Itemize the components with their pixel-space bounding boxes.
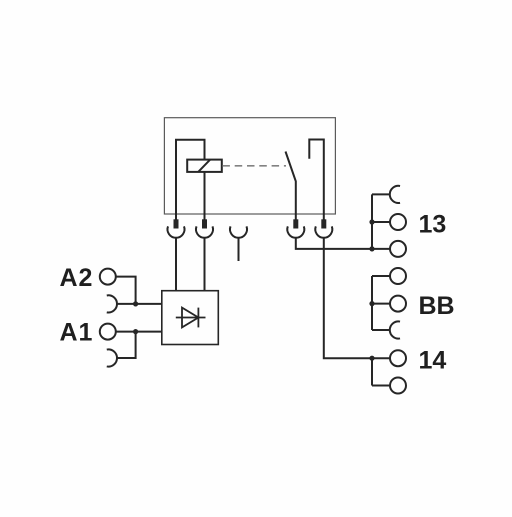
socket circle 13 [390,214,406,230]
svg-text:BB: BB [419,292,455,320]
stub to socket arc 13 [372,193,389,195]
junction node 14 [369,356,374,361]
stub wire of unused socket [238,238,240,261]
wire coil terminal 2 to diode block [204,238,206,291]
terminal socket arc 3 (unused) [230,226,247,237]
socket circle 13 lower [390,241,406,257]
socket circle A2 [100,269,116,285]
svg-text:A2: A2 [60,264,94,292]
stub to circle 14 [372,357,390,359]
terminal pin 5 [321,219,326,228]
relay enclosure box K1 [164,118,335,214]
relay coil K1 (rect with diagonal slash) [187,160,222,172]
junction node A1 [133,329,138,334]
bus wire group 14 [371,358,373,385]
actuator dashed link [222,165,286,167]
diode D1 [176,308,206,328]
svg-text:A1: A1 [60,319,94,347]
terminal pin 1 [174,219,179,228]
junction node BB [369,301,374,306]
diode block U1 [162,291,219,345]
stub to socket arc BB [372,329,389,331]
svg-text:13: 13 [419,210,447,238]
wire A1 to diode block [116,331,162,333]
wire A2 to junction [116,277,136,304]
terminal pin 2 [202,219,207,228]
stub to circle 13 lower [372,248,390,250]
socket circle A1 [100,324,116,340]
wire coil terminal 1 to diode block [175,238,177,291]
bus wire group BB [371,276,373,330]
socket arc below A2 [107,295,117,312]
terminal socket arc 2 [196,226,213,237]
terminal socket arc 5 [315,226,332,237]
junction node 13b [369,246,374,251]
svg-text:14: 14 [419,347,447,375]
bus wire group 13 [371,194,373,249]
wire coil loop (terminal 1 up, over, down through coil to terminal 2) [176,140,205,228]
socket arc group 13 [390,186,400,203]
terminal socket arc 1 [168,226,185,237]
stub to circle BB top [372,275,390,277]
wire arc row to diode block [117,303,161,305]
socket circle 14 lower [390,378,406,394]
stub to circle 13 [372,221,390,223]
socket circle BB top [390,268,406,284]
junction node A2 [133,301,138,306]
junction node 13a [369,219,374,224]
terminal socket arc 4 [287,226,304,237]
stub to circle 14 lower [372,385,390,387]
socket circle 14 [390,350,406,366]
wire terminal5 to node 14 [324,238,372,358]
socket circle BB [390,296,406,312]
socket arc group BB [390,321,400,338]
fixed contact hook to terminal 14 [309,140,324,229]
moving contact arm (NO contact) [286,152,296,229]
wire terminal4 to node 13 [296,238,372,249]
terminal pin 4 [293,219,298,228]
socket arc below A1 [107,349,117,366]
stub to circle BB [372,303,390,305]
wire lower arc to junction [117,332,135,358]
